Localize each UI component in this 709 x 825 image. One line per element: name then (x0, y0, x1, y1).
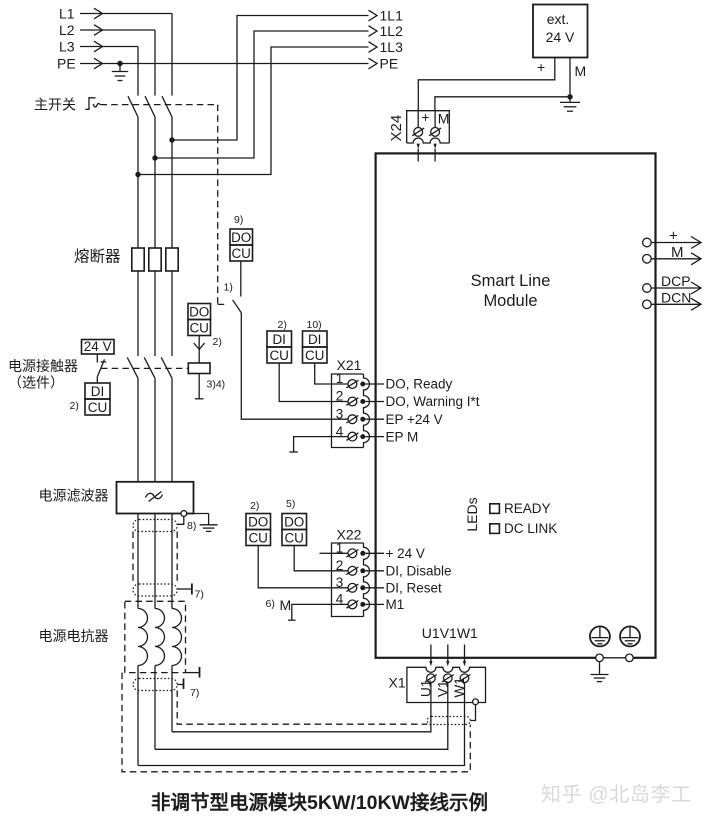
X22 pin 1 contact dot and lead (360, 551, 365, 556)
wire to 1L2 output (155, 31, 369, 158)
reactor coil L1 (172, 609, 182, 666)
svg-text:DI, Reset: DI, Reset (386, 581, 443, 596)
X21 pin4 M terminator (294, 437, 332, 452)
shield clamp 7) upper (177, 588, 192, 590)
svg-text:5): 5) (286, 498, 295, 510)
wire contact 1) to X21 pin3 (241, 313, 331, 420)
svg-text:L2: L2 (59, 22, 75, 38)
X22 pin 4 contact dot and lead (360, 602, 365, 607)
X21 pin 1 contact dot and lead (360, 382, 365, 387)
Smart Line Module enclosure (376, 153, 656, 657)
reactor coil L3 (138, 609, 148, 666)
DO/CU box driving contactor coil (188, 304, 211, 320)
wire L2 below contactor (154, 378, 156, 482)
wire ext24V plus to X24 (418, 58, 555, 111)
X1 V1 screw (444, 674, 453, 683)
svg-text:3)4): 3)4) (207, 379, 226, 391)
shield dashed sleeve3 to X1 sleeve (177, 691, 427, 725)
wire L3 filter to reactor (137, 514, 139, 609)
svg-text:CU: CU (269, 348, 289, 363)
X22 pin 1 wire and screw (332, 552, 349, 554)
shield sleeve 1 (133, 520, 177, 532)
wire L1 vertical drop (171, 14, 173, 96)
svg-text:M: M (575, 63, 587, 79)
svg-text:电源电抗器: 电源电抗器 (39, 628, 109, 644)
junction on PE (117, 61, 122, 66)
wire DI/CU 10) to X21 pin1 (315, 363, 332, 384)
svg-text:+: + (537, 59, 545, 75)
DI/CU box of contactor feedback (85, 383, 110, 399)
X1 U1 screw (427, 674, 436, 683)
wire L3 below fuse (137, 271, 139, 356)
wire L1 input with arrow (80, 13, 172, 15)
X21 pin 4 wire and screw (332, 436, 349, 438)
svg-text:7): 7) (190, 687, 199, 699)
connector X22 body (332, 543, 364, 617)
svg-text:+: + (422, 110, 430, 125)
LED DC LINK square (490, 524, 500, 534)
X21 pin 3 wire and screw (332, 418, 349, 420)
arrow PE output (369, 58, 378, 69)
svg-text:EP +24 V: EP +24 V (386, 412, 443, 427)
svg-text:READY: READY (504, 501, 551, 516)
wire L2 vertical drop (154, 30, 156, 96)
svg-text:DCP: DCP (661, 273, 691, 289)
svg-text:Module: Module (483, 292, 537, 310)
svg-text:1L3: 1L3 (380, 39, 404, 55)
svg-text:DI: DI (91, 384, 105, 399)
contactor pole L3 blade (127, 357, 138, 378)
wire L3 vertical drop (137, 47, 139, 96)
svg-text:M: M (671, 244, 684, 261)
module terminal plus circle (643, 238, 652, 247)
X24 M arrow into module (434, 144, 437, 149)
svg-text:DI: DI (272, 332, 286, 347)
wire L1 filter to reactor (171, 514, 173, 609)
wire DO/CU 5) to X22 pin2 (294, 546, 331, 571)
wire ext24V M to X24 (435, 58, 570, 111)
wire DO/CU 9) down (240, 261, 242, 297)
module U1 wire to X1 (430, 645, 432, 662)
svg-text:M: M (280, 597, 292, 613)
filter earth terminal circle (181, 511, 187, 517)
main switch pole L2 blade (145, 96, 155, 117)
wire L2 input with arrow (80, 29, 155, 31)
line filter box (117, 482, 194, 514)
PE terminal circle 1 (596, 654, 604, 662)
svg-text:知乎 @北岛李工: 知乎 @北岛李工 (541, 783, 692, 806)
contactor coil (188, 363, 210, 374)
main switch handle (85, 98, 95, 110)
DO/CU box 9) (230, 229, 253, 245)
svg-text:CU: CU (284, 531, 304, 546)
module terminal M circle (643, 254, 652, 263)
svg-text:U1V1W1: U1V1W1 (422, 625, 478, 641)
X21 pin 1 wire and screw (332, 383, 349, 385)
X21 pin 4 contact dot and lead (360, 434, 365, 439)
module terminal plus arrow (651, 242, 701, 244)
svg-text:2): 2) (250, 500, 259, 512)
outer shield dashed loop (122, 673, 470, 772)
svg-text:ext.: ext. (547, 11, 570, 27)
reactor clamp (186, 672, 200, 674)
svg-text:DO: DO (248, 515, 268, 530)
contactor pole L1 blade (161, 357, 172, 378)
svg-text:24 V: 24 V (546, 29, 575, 45)
wire filter terminal to ground (187, 513, 209, 515)
DO/CU box 2) to X22 (246, 514, 271, 530)
svg-text:CU: CU (248, 531, 268, 546)
shield sleeve 3 (133, 679, 177, 691)
X22 pin1 stub (320, 552, 332, 554)
wire L3 below reactor (137, 666, 139, 766)
svg-text:（选件）: （选件） (8, 375, 64, 391)
wire PE terminal to ground (599, 662, 601, 675)
wire L3 to X1 W1 (138, 703, 465, 766)
svg-text:10): 10) (307, 319, 322, 331)
wire to 1L1 output (172, 16, 369, 141)
svg-text:1L1: 1L1 (380, 8, 404, 24)
contact 1) blade (233, 300, 242, 313)
svg-text:V1: V1 (435, 680, 450, 697)
X1 W1 screw (460, 674, 469, 683)
wire PE horizontal run with arrow (80, 63, 369, 65)
connector X21 body (332, 374, 364, 448)
svg-text:2): 2) (213, 336, 222, 348)
24V supply box (82, 340, 115, 355)
svg-text:DO: DO (231, 230, 251, 245)
wire L2 below switch (154, 117, 156, 248)
svg-text:电源接触器: 电源接触器 (8, 358, 78, 374)
X22 pin 2 wire and screw (332, 570, 349, 572)
coil M terminator (198, 374, 200, 399)
shield sleeve under X1 (427, 717, 470, 725)
module V1 wire to X1 (447, 645, 449, 662)
module W1 wire to X1 (464, 645, 466, 662)
svg-text:CU: CU (231, 246, 251, 261)
wire L3 below switch (137, 117, 139, 248)
junction 1L1 tap (169, 137, 174, 142)
main switch pole L1 blade (162, 96, 172, 117)
wire L2 below fuse (154, 271, 156, 356)
fuse F3 (166, 248, 178, 271)
shield run dashed right (176, 532, 178, 585)
wire DI/CU 2) to X21 pin2 (279, 363, 331, 402)
wire aux contact to DI (96, 377, 98, 383)
ground at module PE (591, 674, 609, 676)
svg-text:DC LINK: DC LINK (504, 521, 557, 536)
svg-text:6): 6) (266, 598, 275, 610)
wire DO/CU 2) to X22 pin3 (258, 546, 331, 588)
wire L2 filter to reactor (154, 514, 156, 609)
X24 M wire and screw (434, 111, 436, 128)
reactor dashed box (125, 601, 186, 672)
svg-text:DO, Warning I*t: DO, Warning I*t (386, 394, 480, 409)
svg-text:L3: L3 (59, 39, 75, 55)
junction M-ground (567, 94, 572, 99)
fuse F2 (149, 248, 161, 271)
ext 24V box (533, 5, 588, 58)
reactor coil L2 (155, 609, 165, 666)
ground at ext 24V M (569, 97, 571, 103)
svg-text:M: M (438, 111, 450, 127)
wire L1 below contactor (171, 378, 173, 482)
wire to 1L3 output (138, 47, 369, 175)
svg-text:DI: DI (308, 332, 322, 347)
protective earth symbol 1 (590, 626, 610, 646)
protective earth symbol 2 (620, 626, 640, 646)
svg-text:1): 1) (224, 282, 233, 294)
shield run dashed left (132, 532, 134, 585)
wire L2 to X1 V1 (155, 703, 448, 750)
linkage dashed vertical to contact 1) (218, 105, 228, 305)
X21 pin 2 contact dot and lead (360, 399, 365, 404)
module terminal DCN circle (643, 300, 652, 309)
svg-text:9): 9) (234, 214, 243, 226)
main switch linkage dashed (101, 104, 218, 106)
contactor aux contact blade (97, 359, 104, 376)
ground at filter (200, 524, 218, 526)
svg-text:PE: PE (57, 56, 76, 72)
svg-text:电源滤波器: 电源滤波器 (39, 488, 109, 504)
wire L3 below contactor (137, 378, 139, 482)
X22 pin 4 wire and screw (332, 603, 349, 605)
X21 pin 3 contact dot and lead (360, 417, 365, 422)
connector X24 body (407, 111, 450, 143)
wire L3 input with arrow (80, 46, 138, 48)
wire L2 below reactor (154, 666, 156, 750)
svg-text:CU: CU (189, 321, 209, 336)
svg-text:DCN: DCN (661, 289, 691, 305)
wire DO/CU to coil with arrow (198, 336, 200, 364)
wire L1 below fuse (171, 271, 173, 356)
svg-text:DO, Ready: DO, Ready (386, 377, 453, 392)
X1 shield terminal circle (473, 699, 479, 705)
module terminal DCP arrow (651, 287, 701, 289)
X24 plus arrow into module (417, 144, 420, 149)
svg-text:1L2: 1L2 (380, 23, 404, 39)
svg-text:DO: DO (189, 305, 209, 320)
svg-text:+ 24 V: + 24 V (386, 546, 425, 561)
svg-text:PE: PE (380, 56, 399, 72)
svg-text:8): 8) (187, 520, 196, 532)
svg-text:L1: L1 (59, 6, 75, 22)
fuse F1 (132, 248, 144, 271)
svg-text:熔断器: 熔断器 (74, 248, 121, 266)
svg-text:CU: CU (305, 348, 325, 363)
junction 1L3 tap (135, 172, 140, 177)
shield sleeve 2 (133, 584, 177, 596)
LED READY square (490, 504, 500, 514)
X22 pin4 M terminator (292, 604, 332, 620)
wire L1 below switch (171, 117, 173, 248)
svg-text:DO: DO (284, 515, 304, 530)
shield clamp 7) lower (177, 684, 183, 686)
DI/CU box 10) to X21 (303, 331, 328, 347)
svg-text:U1: U1 (418, 680, 433, 697)
contactor linkage dashed (101, 367, 188, 369)
svg-text:DI, Disable: DI, Disable (386, 564, 452, 579)
svg-text:+: + (669, 228, 678, 245)
svg-text:X1: X1 (389, 675, 406, 691)
wire X1 shield to sleeve (470, 705, 475, 721)
svg-text:W1: W1 (452, 677, 467, 697)
main switch pole L3 blade (128, 96, 138, 117)
svg-text:CU: CU (88, 400, 108, 415)
module terminal DCN arrow (651, 303, 701, 305)
svg-text:X24: X24 (388, 115, 405, 142)
X22 pin 3 wire and screw (332, 587, 349, 589)
svg-text:EP M: EP M (386, 429, 419, 444)
junction 1L2 tap (152, 155, 157, 160)
X22 pin 2 contact dot and lead (360, 568, 365, 573)
link between PE terminals (603, 655, 625, 660)
svg-text:LEDs: LEDs (464, 497, 480, 531)
wire circle to shield (177, 516, 184, 524)
DI/CU box 2) to X21 (267, 331, 292, 347)
svg-text:Smart Line: Smart Line (471, 272, 551, 290)
module terminal DCP circle (643, 284, 652, 293)
X22 pin 3 contact dot and lead (360, 585, 365, 590)
svg-text:24 V: 24 V (84, 339, 112, 354)
wire L1 below reactor (171, 666, 173, 732)
X21 pin 2 wire and screw (332, 401, 349, 403)
svg-text:主开关: 主开关 (34, 97, 76, 113)
connector X1 body (407, 667, 486, 702)
svg-text:2): 2) (278, 319, 287, 331)
ground on PE (119, 64, 121, 72)
DO/CU box 5) to X22 (282, 514, 307, 530)
svg-text:M1: M1 (386, 597, 405, 612)
svg-text:非调节型电源模块5KW/10KW接线示例: 非调节型电源模块5KW/10KW接线示例 (151, 791, 488, 814)
PE terminal circle 2 (626, 654, 634, 662)
wire 24V to aux contact (96, 354, 98, 363)
svg-text:2): 2) (70, 400, 79, 412)
X24 plus wire and screw (417, 111, 419, 128)
svg-text:7): 7) (195, 589, 204, 601)
contactor pole L2 blade (144, 357, 155, 378)
wire L1 to X1 U1 (172, 703, 431, 732)
module terminal M arrow (651, 258, 701, 260)
